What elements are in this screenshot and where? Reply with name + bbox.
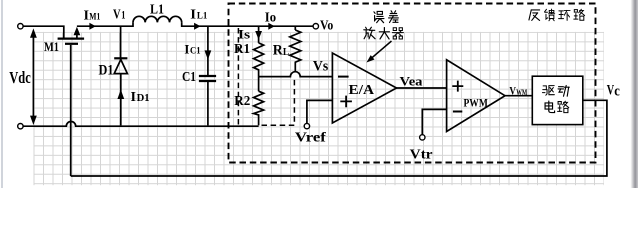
svg-text:R1: R1 — [234, 42, 250, 57]
svg-text:WM: WM — [516, 88, 527, 97]
svg-text:C1: C1 — [190, 46, 201, 56]
svg-text:L1: L1 — [197, 12, 208, 22]
svg-text:V: V — [113, 6, 121, 21]
svg-text:R2: R2 — [234, 94, 250, 109]
svg-text:Is: Is — [238, 28, 250, 42]
svg-text:C1: C1 — [182, 70, 196, 85]
svg-text:I: I — [184, 43, 189, 57]
svg-text:R: R — [273, 42, 283, 58]
svg-text:L: L — [283, 47, 290, 58]
svg-text:M1: M1 — [89, 13, 100, 23]
svg-text:Vs: Vs — [313, 59, 329, 75]
svg-text:I: I — [131, 90, 137, 105]
svg-text:Io: Io — [265, 10, 277, 25]
svg-text:Vref: Vref — [295, 130, 327, 145]
svg-text:I: I — [84, 8, 90, 23]
svg-text:1: 1 — [121, 9, 125, 21]
svg-text:PWM: PWM — [464, 96, 488, 110]
svg-text:Vdc: Vdc — [9, 68, 31, 87]
svg-text:Vea: Vea — [400, 75, 424, 89]
svg-text:Vtr: Vtr — [410, 148, 433, 163]
svg-text:M1: M1 — [44, 39, 59, 54]
svg-text:D1: D1 — [137, 93, 150, 104]
svg-text:I: I — [190, 7, 196, 22]
svg-text:V: V — [607, 83, 615, 99]
svg-text:Vo: Vo — [320, 17, 333, 32]
svg-text:L1: L1 — [150, 3, 164, 18]
svg-text:D1: D1 — [99, 62, 114, 78]
svg-text:E/A: E/A — [349, 82, 375, 97]
svg-text:c: c — [614, 84, 620, 100]
